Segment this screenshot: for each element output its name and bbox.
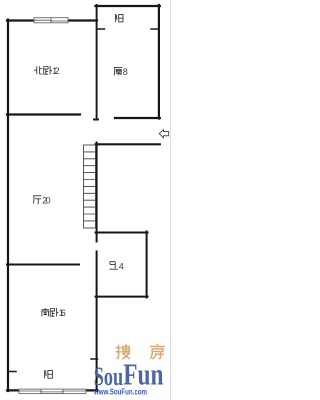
wire south balcony bottom wall xyxy=(7,389,98,391)
label 南卧16 south bedroom xyxy=(42,308,49,316)
window north bedroom top xyxy=(34,18,68,23)
label 北卧12 north bedroom xyxy=(34,66,42,74)
wire kitchen top wall xyxy=(96,5,160,7)
svg-text:Fun: Fun xyxy=(123,358,163,392)
svg-text:www.SouFun.com: www.SouFun.com xyxy=(93,388,147,397)
svg-text:12: 12 xyxy=(52,66,59,76)
wire bathroom bottom wall xyxy=(96,296,148,298)
wire shared vertical wall bedroom/kitchen xyxy=(94,5,98,120)
wire bathroom right wall xyxy=(146,232,148,298)
wire bathroom top wall xyxy=(96,232,148,234)
svg-text:20: 20 xyxy=(42,196,50,206)
label 卫4 bathroom xyxy=(110,262,118,270)
label 阳 south balcony xyxy=(45,370,53,378)
wire south balcony stub left xyxy=(8,371,16,373)
wire north bedroom top wall xyxy=(7,19,97,21)
staircase ladder xyxy=(84,145,96,228)
svg-text:Sou: Sou xyxy=(94,361,123,391)
entrance arrow xyxy=(159,130,168,138)
svg-text:16: 16 xyxy=(59,308,66,318)
wire corridor top wall xyxy=(96,143,160,145)
label 厨8 kitchen xyxy=(114,67,122,75)
window south balcony bottom xyxy=(19,389,86,394)
wire north bedroom bottom wall xyxy=(7,113,80,115)
svg-text:8: 8 xyxy=(123,67,128,77)
wire south bedroom top wall xyxy=(7,264,79,266)
logo hanzi 搜 xyxy=(116,344,130,359)
wire mid vertical wall upper xyxy=(96,143,98,242)
wire left outer wall xyxy=(7,20,9,391)
wire balcony divider stub left xyxy=(97,28,105,30)
label 厅20 living room xyxy=(33,196,41,204)
right border xyxy=(170,0,172,400)
wire mid vertical wall lower xyxy=(96,252,98,392)
label 阳 top balcony xyxy=(115,14,123,22)
wire kitchen bottom wall xyxy=(115,117,160,119)
logo hanzi 房 xyxy=(150,344,165,359)
wire south balcony stub right xyxy=(91,358,98,360)
wire balcony divider stub right xyxy=(151,28,159,30)
svg-text:4: 4 xyxy=(119,262,124,272)
wire kitchen right wall xyxy=(158,5,160,119)
